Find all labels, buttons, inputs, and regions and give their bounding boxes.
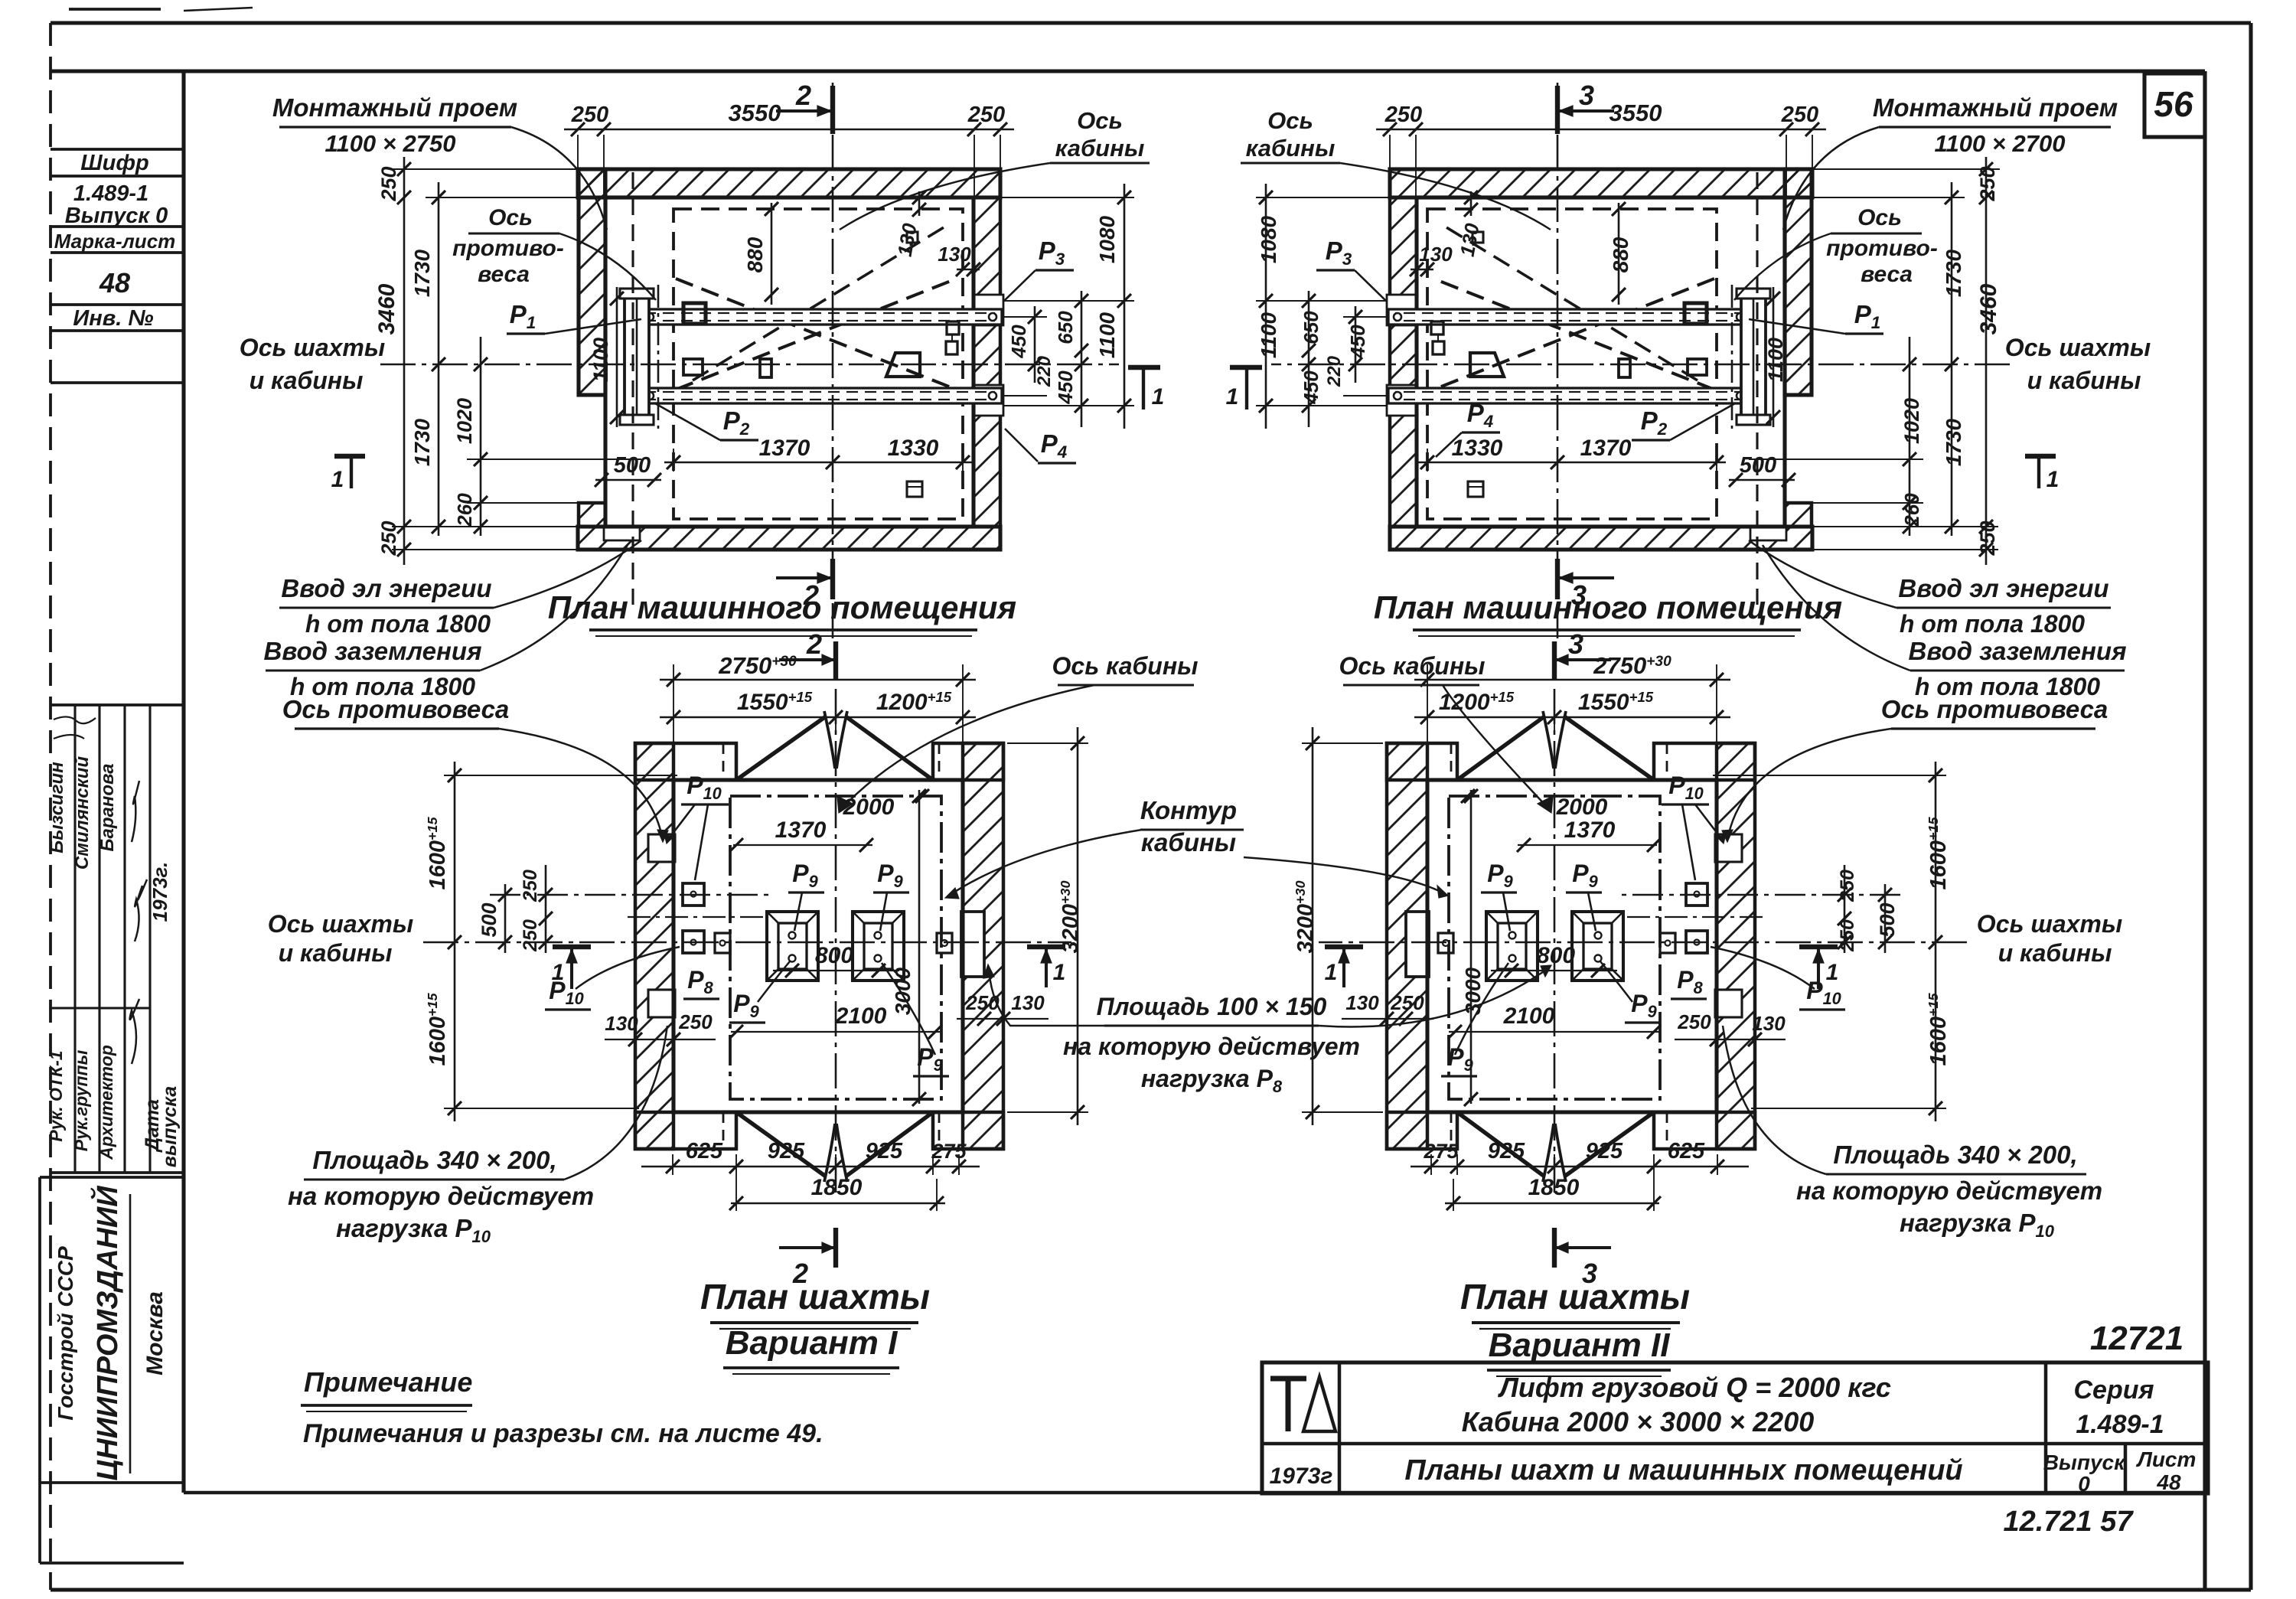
svg-text:3550: 3550 — [729, 100, 781, 126]
section mark 1 left — [1799, 947, 1838, 989]
svg-text:1730: 1730 — [410, 249, 434, 297]
svg-text:1: 1 — [2047, 467, 2060, 492]
svg-text:1370: 1370 — [1564, 817, 1616, 843]
signature block left — [46, 705, 184, 1173]
machine room II inner outline — [1417, 197, 1785, 527]
svg-text:Ввод эл энергии: Ввод эл энергии — [281, 574, 491, 602]
svg-text:48: 48 — [99, 267, 130, 299]
section mark 1 right — [1325, 947, 1363, 987]
dimension right 3200 — [1293, 727, 1383, 1125]
dimension 880 and 130 inside top — [743, 191, 980, 305]
svg-text:и кабины: и кабины — [249, 367, 364, 394]
svg-text:2: 2 — [806, 628, 822, 660]
svg-text:Выпуск 0: Выпуск 0 — [65, 204, 168, 228]
svg-text:650: 650 — [1054, 311, 1077, 344]
svg-text:Ось: Ось — [1267, 107, 1313, 134]
svg-text:220: 220 — [1034, 355, 1055, 387]
svg-text:1730: 1730 — [1942, 418, 1965, 466]
svg-text:260: 260 — [453, 493, 476, 527]
svg-text:250: 250 — [1837, 919, 1858, 952]
shaft plan II walls — [1387, 743, 1755, 1149]
svg-text:800: 800 — [1537, 943, 1575, 968]
svg-text:880: 880 — [743, 237, 767, 272]
machine room I inner outline — [605, 197, 974, 527]
svg-text:1100 × 2750: 1100 × 2750 — [325, 130, 456, 157]
svg-text:кабины: кабины — [1141, 828, 1236, 857]
svg-text:Примечание: Примечание — [304, 1366, 472, 1398]
svg-text:1370: 1370 — [775, 817, 827, 843]
svg-text:Москва: Москва — [142, 1291, 168, 1375]
svg-text:Ось: Ось — [488, 205, 533, 230]
dimension right 3200 — [1007, 727, 1088, 1125]
svg-text:1: 1 — [1152, 384, 1165, 410]
dimensions top 2750 1550 1200 — [660, 652, 976, 746]
svg-text:1730: 1730 — [1942, 249, 1965, 297]
axes — [1319, 689, 1967, 1194]
svg-text:250: 250 — [1781, 103, 1818, 127]
svg-text:450: 450 — [1346, 325, 1369, 359]
svg-text:1973г.: 1973г. — [148, 862, 171, 922]
ploshad 100x150 label — [983, 964, 1551, 1096]
svg-text:h от пола 1800: h от пола 1800 — [1900, 610, 2085, 638]
beam support plate — [1737, 289, 1770, 425]
svg-text:3: 3 — [1579, 80, 1594, 111]
svg-text:1: 1 — [1053, 960, 1066, 985]
svg-text:12721: 12721 — [2090, 1320, 2183, 1357]
svg-text:Примечания и разрезы см.: Примечания и разрезы см. на листе 49. — [303, 1419, 823, 1448]
svg-text:ЦНИИПРОМЗДАНИЙ: ЦНИИПРОМЗДАНИЙ — [90, 1186, 124, 1481]
svg-text:Баранова: Баранова — [97, 763, 118, 851]
svg-text:130: 130 — [1419, 243, 1453, 266]
dimension chains left — [374, 157, 641, 565]
machine room plan I walls — [578, 169, 1003, 550]
door splays — [1457, 711, 1654, 1182]
dimensions top 2750 1550 1200 — [1414, 652, 1730, 746]
svg-text:Лифт грузовой Q = 2000: Лифт грузовой Q = 2000 кгс — [1497, 1372, 1891, 1403]
svg-text:Ввод заземления: Ввод заземления — [264, 637, 482, 665]
svg-text:450: 450 — [1054, 370, 1077, 405]
shaft inner outline — [1427, 780, 1717, 1112]
guide rail brackets P9 — [767, 912, 904, 981]
section mark 1 left — [2025, 456, 2059, 492]
svg-text:Архитектор: Архитектор — [96, 1045, 116, 1160]
svg-text:1370: 1370 — [1580, 436, 1632, 461]
svg-text:1: 1 — [1325, 960, 1338, 985]
section mark 1 right — [1027, 947, 1065, 987]
svg-text:Ввод заземления: Ввод заземления — [1909, 637, 2127, 665]
note block — [301, 1366, 823, 1448]
monorail beams — [636, 309, 1002, 403]
svg-text:Ось противовеса: Ось противовеса — [1881, 695, 2108, 723]
page number box 56 — [2144, 73, 2205, 137]
dimension 1100 opening — [589, 287, 624, 427]
counterweight fixtures — [1438, 883, 1707, 953]
svg-text:Госстрой СССР: Госстрой СССР — [54, 1246, 77, 1421]
svg-text:500: 500 — [614, 453, 651, 478]
svg-text:Ось шахты: Ось шахты — [2005, 334, 2151, 361]
svg-text:220: 220 — [1324, 355, 1345, 387]
svg-text:1100: 1100 — [1764, 338, 1787, 382]
svg-text:Ось: Ось — [1077, 107, 1123, 134]
svg-text:2: 2 — [795, 80, 811, 111]
svg-text:Контур: Контур — [1140, 796, 1237, 824]
title shaft plan II — [1460, 1277, 1690, 1376]
labels shaft plan I — [268, 628, 1199, 1289]
svg-text:Ось шахты: Ось шахты — [1977, 910, 2122, 938]
svg-text:1100: 1100 — [1257, 312, 1280, 358]
svg-text:Ось противовеса: Ось противовеса — [282, 695, 510, 723]
svg-text:1.489-1: 1.489-1 — [73, 181, 148, 206]
svg-text:и кабины: и кабины — [279, 939, 393, 967]
svg-text:противо-: противо- — [1826, 236, 1938, 261]
svg-text:1973г: 1973г — [1270, 1464, 1333, 1489]
svg-text:Рук. ОТК-1: Рук. ОТК-1 — [46, 1050, 66, 1141]
equipment blocks — [1431, 232, 1707, 497]
small dims 130 250 — [605, 991, 1049, 1046]
svg-text:130: 130 — [1752, 1012, 1786, 1035]
svg-text:250: 250 — [1384, 103, 1422, 127]
dimension 500 bottom left — [1729, 453, 1795, 487]
svg-text:250: 250 — [377, 166, 400, 201]
svg-text:веса: веса — [478, 262, 530, 287]
svg-text:на которую действует: на которую действует — [1796, 1176, 2102, 1205]
svg-text:Выпуск: Выпуск — [2043, 1451, 2126, 1474]
svg-text:Рук.группы: Рук.группы — [71, 1049, 91, 1151]
equipment dashed contour — [1427, 209, 1717, 519]
svg-text:1: 1 — [1826, 960, 1839, 985]
svg-text:1: 1 — [331, 467, 344, 492]
svg-text:Кабина 2000 × 3000 × 2200: Кабина 2000 × 3000 × 2200 — [1462, 1406, 1815, 1437]
dimensions 1370 1330 inside — [1418, 436, 1726, 472]
svg-text:1020: 1020 — [453, 398, 476, 444]
axis lines — [1271, 83, 2010, 644]
svg-text:925: 925 — [768, 1139, 805, 1163]
svg-text:130: 130 — [1011, 991, 1045, 1014]
section mark 1 right — [1128, 367, 1164, 410]
ploshad 340x200 label — [1723, 1026, 2102, 1241]
monorail beams — [1388, 309, 1754, 403]
svg-text:250: 250 — [520, 919, 541, 952]
labels machine plan II — [1241, 80, 2151, 700]
dimensions 1370 1330 inside — [664, 436, 972, 472]
svg-text:450: 450 — [1007, 325, 1030, 359]
svg-text:Ось кабины: Ось кабины — [1052, 652, 1199, 680]
svg-text:выпуска: выпуска — [159, 1086, 181, 1168]
equipment dashed contour — [673, 209, 963, 519]
svg-text:1330: 1330 — [1452, 436, 1503, 461]
TD logo — [1270, 1377, 1336, 1431]
svg-text:3460: 3460 — [374, 283, 400, 334]
svg-text:56: 56 — [2154, 84, 2193, 124]
svg-text:1850: 1850 — [1528, 1175, 1580, 1200]
svg-text:Площадь 340 × 200,: Площадь 340 × 200, — [312, 1146, 556, 1174]
svg-text:260: 260 — [1900, 493, 1923, 527]
title block — [1262, 1362, 2208, 1493]
machine room plan II walls — [1387, 169, 1812, 550]
svg-text:250: 250 — [967, 103, 1005, 127]
kontur kabiny label — [945, 796, 1448, 899]
svg-text:500: 500 — [1740, 453, 1776, 478]
svg-text:1730: 1730 — [410, 418, 434, 466]
guide rail brackets P9 — [1486, 912, 1623, 981]
svg-text:Марка-лист: Марка-лист — [54, 230, 176, 253]
svg-text:12.721 57: 12.721 57 — [2003, 1506, 2134, 1538]
svg-text:кабины: кабины — [1246, 135, 1336, 162]
svg-text:План шахты: План шахты — [1460, 1277, 1690, 1317]
door splays — [736, 711, 933, 1182]
svg-text:275: 275 — [1423, 1140, 1459, 1163]
shaft inner outline — [673, 780, 963, 1112]
svg-text:Ось шахты: Ось шахты — [240, 334, 385, 361]
svg-text:Монтажный проем: Монтажный проем — [1873, 93, 2118, 122]
svg-text:противо-: противо- — [452, 236, 564, 261]
svg-text:Шифр: Шифр — [80, 151, 148, 175]
svg-text:1100 × 2700: 1100 × 2700 — [1935, 130, 2066, 157]
svg-text:Ось шахты: Ось шахты — [268, 910, 413, 938]
svg-text:1020: 1020 — [1900, 398, 1923, 444]
dimension chain top 250-3550-250 — [564, 100, 1014, 199]
svg-text:625: 625 — [686, 1139, 723, 1163]
svg-text:500: 500 — [1876, 902, 1899, 937]
svg-text:1850: 1850 — [811, 1175, 863, 1200]
svg-text:130: 130 — [605, 1012, 638, 1035]
dimension chains right — [975, 184, 1134, 429]
svg-text:625: 625 — [1668, 1139, 1705, 1163]
svg-text:250: 250 — [1837, 870, 1858, 902]
institute block left — [40, 1177, 184, 1563]
svg-text:1100: 1100 — [1095, 312, 1119, 358]
beam support plate — [620, 289, 654, 425]
svg-text:Площадь 340 × 200,: Площадь 340 × 200, — [1833, 1141, 2077, 1169]
svg-text:на которую действует: на которую действует — [288, 1182, 594, 1210]
dimensions 500 250 250 — [1837, 865, 1899, 953]
svg-text:Монтажный проем: Монтажный проем — [272, 93, 517, 122]
svg-text:2000: 2000 — [843, 795, 895, 820]
dimension 3000 inside — [891, 789, 926, 1106]
dimension chain top 250-3550-250 — [1376, 100, 1826, 199]
bottom strip — [51, 1493, 2205, 1563]
dimensions left 1600 1600 — [425, 762, 677, 1121]
svg-text:нагрузка Р10: нагрузка Р10 — [1900, 1209, 2055, 1241]
title shaft plan I — [700, 1277, 930, 1374]
svg-text:3460: 3460 — [1976, 283, 2001, 334]
svg-text:h от пола 1800: h от пола 1800 — [305, 610, 491, 638]
svg-text:и кабины: и кабины — [2027, 367, 2141, 394]
dimension 880 and 130 inside top — [1410, 191, 1632, 305]
section mark 1 left — [552, 947, 591, 989]
svg-text:250: 250 — [678, 1010, 713, 1033]
dimensions bottom 625 925 925 275 1850 — [641, 1139, 980, 1211]
small dims 130 250 — [1342, 991, 1786, 1046]
dimension chains right — [1256, 184, 1415, 429]
svg-text:275: 275 — [931, 1140, 967, 1163]
svg-text:и кабины: и кабины — [1998, 939, 2112, 967]
svg-text:450: 450 — [1300, 370, 1322, 405]
svg-text:3550: 3550 — [1609, 100, 1662, 126]
dimensions left 1600 1600 — [1713, 762, 1951, 1121]
shaft plan I walls — [635, 743, 1003, 1149]
svg-text:1080: 1080 — [1257, 215, 1280, 263]
svg-text:2100: 2100 — [835, 1003, 887, 1029]
svg-text:250: 250 — [520, 870, 541, 902]
labels shaft plan II — [1339, 628, 2123, 1289]
stamp column top-left — [51, 149, 184, 383]
dimension 500 bottom left — [595, 453, 661, 487]
dimension 3000 inside — [1461, 789, 1485, 1106]
svg-text:Вариант I: Вариант I — [726, 1324, 898, 1362]
svg-text:1370: 1370 — [759, 436, 810, 461]
svg-text:Бызсигин: Бызсигин — [47, 762, 67, 853]
section mark 1 right — [1226, 367, 1262, 410]
svg-text:План машинного помещения: План машинного помещения — [548, 589, 1016, 625]
svg-text:Ось кабины: Ось кабины — [1339, 652, 1486, 680]
svg-text:2100: 2100 — [1503, 1003, 1555, 1029]
title block texts — [1270, 1372, 2197, 1496]
svg-text:1100: 1100 — [589, 338, 612, 382]
svg-text:1.489-1: 1.489-1 — [2076, 1410, 2164, 1439]
svg-text:на которую действует: на которую действует — [1063, 1033, 1360, 1060]
svg-text:Лист: Лист — [2136, 1447, 2197, 1471]
section mark 1 left — [331, 456, 365, 492]
svg-text:130: 130 — [938, 243, 971, 266]
svg-text:Вариант II: Вариант II — [1489, 1327, 1671, 1364]
svg-text:Планы шахт и машинных поме: Планы шахт и машинных помещений — [1404, 1454, 1962, 1486]
dimension chains left — [1749, 157, 2001, 565]
svg-text:250: 250 — [1976, 166, 1999, 201]
svg-text:3: 3 — [1568, 628, 1583, 660]
svg-text:1330: 1330 — [888, 436, 939, 461]
svg-text:650: 650 — [1300, 311, 1322, 344]
ploshad 340x200 label — [288, 1026, 667, 1246]
svg-text:130: 130 — [1345, 991, 1379, 1014]
svg-text:1080: 1080 — [1095, 215, 1119, 263]
svg-text:800: 800 — [815, 943, 853, 968]
cabin contour dash-dot — [1449, 796, 1660, 1099]
dimensions 500 250 250 — [478, 865, 553, 953]
svg-text:Площадь 100 × 150: Площадь 100 × 150 — [1097, 993, 1327, 1020]
svg-text:Ввод эл энергии: Ввод эл энергии — [1898, 574, 2108, 602]
svg-text:250: 250 — [571, 103, 608, 127]
svg-text:Инв. №: Инв. № — [73, 306, 153, 331]
svg-text:Смилянский: Смилянский — [72, 756, 93, 870]
labels machine plan I — [240, 80, 1150, 700]
axes — [423, 689, 1071, 1194]
svg-text:Серия: Серия — [2073, 1375, 2154, 1405]
svg-text:План машинного помещения: План машинного помещения — [1374, 589, 1842, 625]
svg-text:880: 880 — [1609, 237, 1632, 272]
svg-text:Ось: Ось — [1857, 205, 1902, 230]
svg-text:1: 1 — [1226, 384, 1239, 410]
svg-text:кабины: кабины — [1055, 135, 1145, 162]
dimension 1100 opening — [1764, 287, 1787, 427]
svg-text:нагрузка Р10: нагрузка Р10 — [336, 1214, 491, 1246]
svg-text:925: 925 — [1586, 1139, 1623, 1163]
svg-text:925: 925 — [1488, 1139, 1525, 1163]
axis lines — [380, 83, 1119, 644]
svg-text:План шахты: План шахты — [700, 1277, 930, 1317]
equipment blocks — [683, 232, 959, 497]
svg-text:250: 250 — [1677, 1010, 1711, 1033]
svg-text:500: 500 — [478, 902, 501, 937]
svg-text:нагрузка Р8: нагрузка Р8 — [1141, 1065, 1283, 1096]
inventory numbers — [2003, 1320, 2183, 1538]
svg-text:2000: 2000 — [1556, 795, 1608, 820]
svg-text:48: 48 — [2156, 1470, 2181, 1494]
cabin contour dash-dot — [730, 796, 941, 1099]
svg-text:925: 925 — [866, 1139, 903, 1163]
counterweight fixtures — [683, 883, 952, 953]
svg-text:250: 250 — [1390, 991, 1424, 1014]
dimensions bottom 625 925 925 275 1850 — [1411, 1139, 1749, 1211]
svg-text:веса: веса — [1861, 262, 1913, 287]
